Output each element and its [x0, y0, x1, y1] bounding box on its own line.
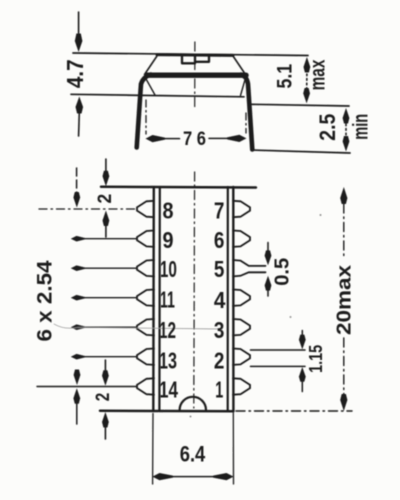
pin 2 body (right): [233, 349, 250, 365]
svg-text:4: 4: [214, 287, 226, 313]
svg-text:12: 12: [159, 317, 176, 343]
side view: seating plane line right: [251, 104, 349, 106]
DIP top view: right inner edge: [227, 187, 229, 411]
pin 1 body (right): [233, 378, 250, 394]
pin 8 body (left): [137, 201, 154, 217]
pin 14 leader line: [37, 386, 137, 388]
side view: dark pin band under body: [147, 72, 246, 77]
scan speckle dots: [320, 214, 322, 216]
dimension 7.6 left extension dash: [145, 100, 147, 134]
pitch chain top arrow at pin 8: [76, 168, 78, 193]
pin 4 body (right): [233, 290, 250, 306]
DIP top view: left inner edge: [158, 187, 161, 411]
side view: body lower-left slope: [146, 78, 156, 95]
dimension 20max arrows and dash-dot line: [340, 187, 347, 204]
svg-text:5.1: 5.1: [273, 64, 297, 89]
side view: leg tip line right: [251, 150, 350, 153]
pin 3 body (right): [233, 319, 250, 335]
side view: package body top face: [157, 53, 233, 57]
svg-text:7 6: 7 6: [183, 129, 206, 150]
svg-text:5: 5: [214, 256, 225, 282]
pitch chain bottom arrows at pin 14: [74, 370, 81, 386]
side view: index notch on body: [182, 55, 209, 64]
svg-text:10: 10: [160, 256, 177, 282]
side view: body bottom face with left extension line: [71, 94, 244, 97]
pin 6 body (right): [233, 231, 250, 247]
svg-text:8: 8: [163, 197, 174, 223]
pin 8 centerline dash-dot: [39, 208, 136, 210]
pitch arrow row pin 9: [73, 238, 137, 240]
pin 13 body (left): [137, 349, 154, 365]
dimension 0.5 arrows at pin 5: [267, 243, 269, 252]
dimension 2.5 arrows: [343, 108, 350, 124]
svg-text:2: 2: [94, 194, 116, 204]
pitch arrow row pin 12: [73, 326, 137, 328]
svg-text:min: min: [350, 114, 373, 140]
DIP top view: body top edge: [101, 186, 256, 189]
leader line from 6x2.54 label: [54, 324, 222, 329]
pin 9 body (left): [137, 231, 154, 247]
DIP top view: right outer edge: [232, 187, 234, 411]
dimension 7.6 right arrow and line: [227, 135, 246, 142]
dimension 5.1 arrows: [304, 57, 311, 73]
dimension 4.7 upper arrow: [78, 12, 80, 33]
dimension 6.4 line and arrows: [170, 476, 216, 478]
svg-text:14: 14: [159, 377, 178, 403]
pitch arrow row pin 10: [73, 267, 137, 269]
dimension 7.6 left arrow and line: [146, 135, 166, 142]
svg-text:4.7: 4.7: [62, 59, 88, 88]
dimension 4.7 lower arrow: [76, 97, 84, 114]
dimension 2 top arrows: [105, 159, 107, 173]
svg-text:6: 6: [214, 227, 225, 253]
common vertical centerline: [194, 42, 196, 108]
svg-text:3: 3: [214, 317, 225, 343]
side view: body upper-left slope: [145, 56, 158, 75]
svg-text:2: 2: [92, 393, 114, 402]
side view: body upper-right slope: [233, 56, 246, 75]
svg-text:20max: 20max: [333, 264, 356, 335]
svg-text:2.5: 2.5: [315, 114, 340, 141]
svg-text:1: 1: [215, 377, 223, 403]
svg-text:max: max: [306, 59, 329, 90]
svg-text:7: 7: [214, 197, 225, 223]
side view: body lower-right slope: [241, 78, 246, 96]
DIP top view: body bottom edge: [100, 410, 234, 413]
pin 12 body (left): [137, 319, 154, 335]
DIP top view: index semicircle at bottom: [180, 397, 206, 410]
DIP top view: left outer edge: [152, 187, 155, 411]
pin 10 body (left): [137, 260, 154, 276]
svg-text:11: 11: [160, 287, 175, 313]
dimension 7.6 right extension dash: [245, 113, 247, 133]
svg-text:0.5: 0.5: [271, 258, 293, 286]
svg-text:13: 13: [159, 347, 177, 373]
svg-text:2: 2: [214, 347, 225, 373]
dimension 1.15 lines at pin 2: [251, 349, 306, 351]
pitch arrow row pin 11: [73, 297, 137, 299]
pin 11 body (left): [137, 290, 154, 306]
DIP top view: bottom edge dash-dot extension right: [236, 410, 352, 412]
pin 7 body (right): [233, 201, 250, 217]
dimension 6.4 extension lines: [152, 414, 154, 485]
dimension 2 bottom arrows: [104, 360, 106, 371]
svg-text:6 x 2.54: 6 x 2.54: [33, 260, 56, 341]
side view: top extension line: [73, 53, 308, 56]
pitch arrow row pin 13: [73, 356, 137, 358]
svg-text:9: 9: [163, 227, 174, 253]
pin 14 body (left): [137, 378, 154, 394]
pin 5 body with 0.5 tab (right): [233, 260, 266, 276]
svg-text:1.15: 1.15: [305, 345, 326, 373]
svg-text:6.4: 6.4: [180, 442, 206, 467]
side view: right leg: [241, 75, 252, 150]
side view: left leg: [137, 75, 151, 148]
